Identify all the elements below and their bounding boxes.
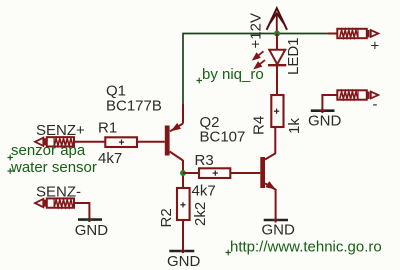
connector SENZ+ xyxy=(35,137,74,146)
svg-text:SENZ+: SENZ+ xyxy=(36,122,85,139)
wire: node to R3 xyxy=(183,172,199,174)
wire: SENZ- connector to ground xyxy=(74,203,89,222)
svg-text:+: + xyxy=(371,38,380,55)
resistor R4 xyxy=(271,95,283,127)
ground (- output) xyxy=(311,109,335,112)
junction node at +12V rail / LED xyxy=(274,31,280,37)
transistor Q1 xyxy=(137,104,183,188)
LED light emission arrow 2 xyxy=(254,60,265,69)
svg-text:by niq_ro: by niq_ro xyxy=(202,66,264,83)
note marker (water sensor) xyxy=(8,168,14,174)
resistor R1 xyxy=(105,137,137,147)
transistor Q2 xyxy=(230,153,275,189)
note marker (by niq_ro) xyxy=(197,78,203,84)
ground (SENZ-) xyxy=(78,218,102,221)
connector - output xyxy=(337,90,378,99)
wire: junction to LED anode xyxy=(276,34,278,51)
svg-text:senzor apa: senzor apa xyxy=(11,142,86,159)
svg-text:GND: GND xyxy=(308,113,342,130)
svg-text:R1: R1 xyxy=(98,119,117,136)
wire: R4 to Q2 collector xyxy=(274,127,276,154)
svg-text:GND: GND xyxy=(262,222,296,239)
ground (Q2 emitter) xyxy=(264,219,288,222)
svg-text:+12V: +12V xyxy=(248,13,265,48)
svg-text:GND: GND xyxy=(75,222,109,239)
R3 plus mark xyxy=(213,171,218,176)
wire: R2 to ground xyxy=(182,220,184,253)
power +12V symbol xyxy=(267,8,287,33)
note marker (url) xyxy=(226,250,232,256)
junction node collector Q1 / R2 / R3 xyxy=(180,170,186,176)
ground (R2) xyxy=(169,250,194,253)
R1 plus mark xyxy=(119,140,124,145)
svg-text:-: - xyxy=(373,96,378,113)
resistor R3 xyxy=(199,168,230,178)
LED LED1 xyxy=(268,50,286,65)
svg-text:GND: GND xyxy=(167,253,201,270)
wire: rail to + output connector xyxy=(328,33,337,35)
R2 plus mark xyxy=(180,202,185,207)
svg-text:water sensor: water sensor xyxy=(10,159,97,176)
svg-text:http://www.tehnic.go.ro: http://www.tehnic.go.ro xyxy=(230,239,382,256)
svg-text:LED1: LED1 xyxy=(285,37,302,75)
svg-text:BC107: BC107 xyxy=(200,129,246,146)
wire: - connector to ground xyxy=(322,95,337,113)
svg-text:R4: R4 xyxy=(251,116,268,135)
wire: LED cathode to R4 xyxy=(276,65,278,95)
svg-text:R2: R2 xyxy=(158,208,175,227)
svg-text:2k2: 2k2 xyxy=(192,202,209,226)
svg-text:1k: 1k xyxy=(286,118,303,134)
resistor R2 xyxy=(177,188,190,220)
svg-text:BC177B: BC177B xyxy=(106,98,162,115)
connector + output xyxy=(337,29,378,38)
R4 plus mark xyxy=(274,109,279,114)
LED light emission arrow 1 xyxy=(253,51,264,60)
svg-text:R3: R3 xyxy=(195,152,214,169)
svg-text:4k7: 4k7 xyxy=(98,150,122,167)
wire: R1 to connector SENZ+ xyxy=(74,141,105,143)
wire: Q2 emitter to ground xyxy=(275,189,277,223)
connector SENZ- xyxy=(35,198,74,207)
wire: top horizontal +12V rail and vertical drop to Q1 emitter xyxy=(183,34,330,106)
note marker (senzor apa) xyxy=(8,155,14,161)
svg-text:4k7: 4k7 xyxy=(192,182,216,199)
